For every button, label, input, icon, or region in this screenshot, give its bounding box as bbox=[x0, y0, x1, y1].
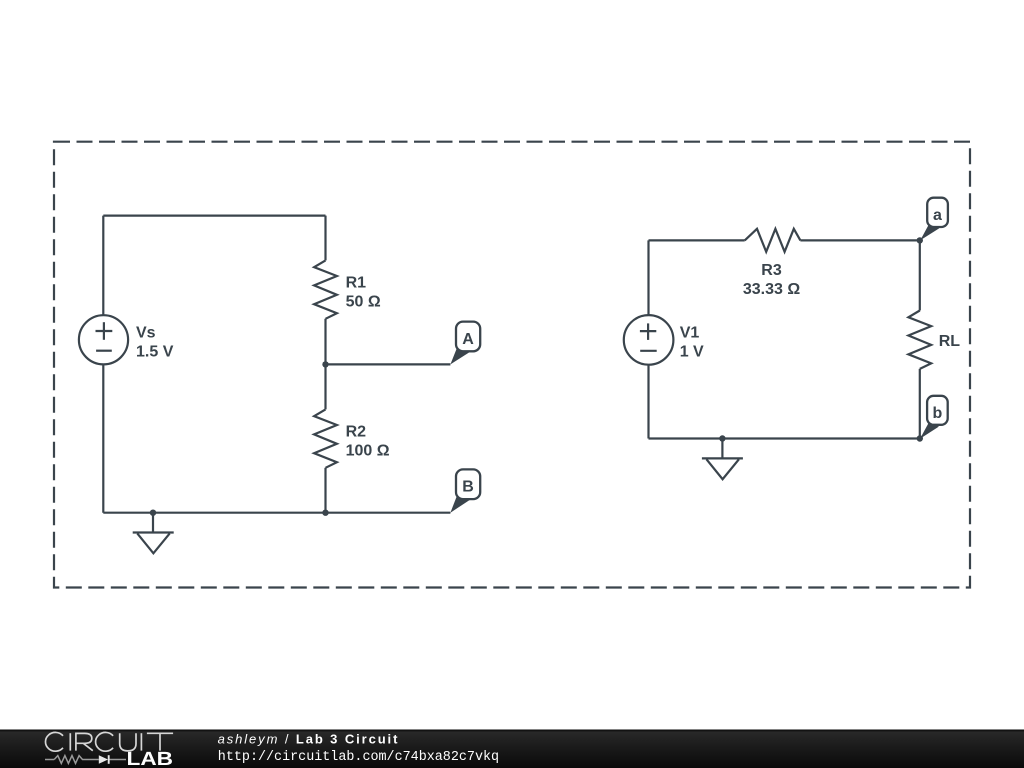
svg-text:1.5 V: 1.5 V bbox=[136, 343, 174, 360]
svg-text:B: B bbox=[462, 479, 474, 496]
svg-text:R1: R1 bbox=[346, 275, 367, 292]
svg-text:100 Ω: 100 Ω bbox=[346, 442, 390, 459]
svg-text:A: A bbox=[462, 331, 474, 348]
svg-text:1 V: 1 V bbox=[680, 343, 704, 360]
svg-text:50 Ω: 50 Ω bbox=[346, 294, 381, 311]
svg-text:RL: RL bbox=[939, 333, 961, 350]
svg-text:V1: V1 bbox=[680, 324, 700, 341]
svg-text:33.33 Ω: 33.33 Ω bbox=[743, 281, 800, 298]
svg-text:http://circuitlab.com/c74bxa82: http://circuitlab.com/c74bxa82c7vkq bbox=[218, 750, 499, 765]
svg-text:R3: R3 bbox=[761, 262, 782, 279]
svg-text:a: a bbox=[933, 207, 942, 224]
svg-text:LAB: LAB bbox=[126, 749, 173, 768]
svg-text:R2: R2 bbox=[346, 423, 367, 440]
svg-text:ashleym / Lab 3 Circuit: ashleym / Lab 3 Circuit bbox=[218, 731, 400, 746]
svg-text:b: b bbox=[933, 405, 943, 422]
svg-text:Vs: Vs bbox=[136, 324, 156, 341]
